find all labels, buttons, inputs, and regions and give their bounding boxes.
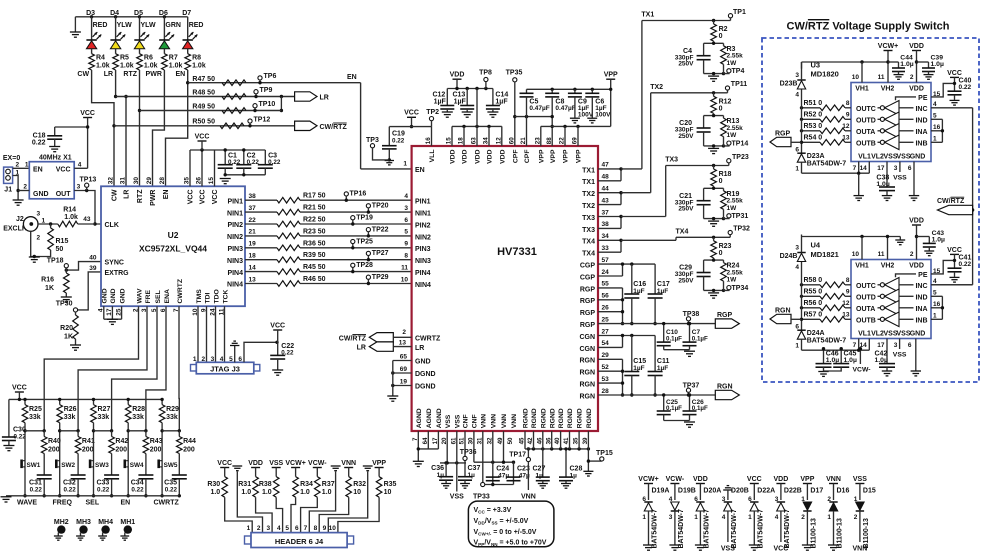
svg-text:VH1: VH1	[855, 263, 869, 270]
svg-text:R53 0: R53 0	[804, 123, 823, 130]
svg-text:1.0µ: 1.0µ	[844, 357, 857, 364]
capacitor C37 1uF / test point TP36	[458, 431, 480, 483]
svg-text:1µ: 1µ	[437, 472, 445, 479]
wire VNN pin31 to TP33	[482, 431, 484, 485]
svg-text:AGND: AGND	[436, 408, 443, 428]
wire RC loop TX1	[704, 42, 726, 76]
svg-text:BAT54DW-7: BAT54DW-7	[807, 338, 847, 345]
power VCC U2	[195, 134, 210, 151]
svg-text:JTAG J3: JTAG J3	[210, 365, 240, 374]
capacitor C6 1uF 100V	[585, 89, 611, 118]
flag RGN output	[715, 384, 739, 400]
junction U3 row0	[800, 106, 803, 109]
svg-text:200: 200	[82, 446, 94, 453]
svg-text:SW5: SW5	[164, 462, 178, 469]
svg-text:37: 37	[602, 209, 610, 216]
capacitor C1 0.22	[218, 148, 241, 175]
wire TX2 row	[650, 84, 727, 95]
svg-text:MD1821: MD1821	[811, 250, 839, 259]
svg-text:VH2: VH2	[881, 86, 895, 93]
svg-text:R54 0: R54 0	[804, 135, 823, 142]
svg-text:R47 50: R47 50	[192, 76, 215, 83]
wire U4 pin6	[915, 339, 917, 371]
svg-text:RTZ: RTZ	[137, 189, 144, 203]
flag LR output	[295, 92, 329, 102]
svg-text:R4: R4	[96, 55, 105, 62]
svg-text:TX3: TX3	[665, 157, 678, 164]
resistor R31 1.0 (VDD to J4 pin 3)	[238, 460, 272, 533]
resistor R45 50	[277, 264, 326, 274]
label HV pin 38 TX3	[582, 221, 609, 234]
svg-text:VSS: VSS	[269, 460, 283, 467]
svg-text:TX2: TX2	[650, 84, 663, 91]
svg-text:38: 38	[249, 193, 257, 200]
svg-text:RGN: RGN	[775, 308, 791, 315]
capacitor C16 1uF	[624, 264, 646, 325]
svg-text:9: 9	[846, 289, 850, 296]
resistor R13 2.55k 1W	[721, 116, 743, 146]
svg-text:VSS: VSS	[896, 330, 910, 337]
svg-text:65: 65	[400, 353, 408, 360]
wire J1.2 to X1.EN	[13, 162, 30, 169]
label HV pin 9 PIN3	[404, 241, 430, 254]
svg-text:29: 29	[146, 177, 153, 185]
capacitor C41 0.22	[948, 254, 972, 277]
svg-text:R52 0: R52 0	[804, 112, 823, 119]
svg-text:2.55k: 2.55k	[727, 198, 744, 205]
label U4 GND	[910, 330, 926, 337]
svg-text:1: 1	[247, 525, 251, 532]
wire VSS rail	[440, 431, 466, 465]
svg-text:R12: R12	[719, 98, 732, 105]
svg-text:38: 38	[602, 221, 610, 228]
test point TP8	[479, 70, 492, 89]
resistor R6 1.0k	[137, 54, 158, 70]
wire CNF-VNN rail	[474, 431, 515, 464]
svg-text:C32: C32	[63, 480, 76, 487]
label HV pin 31 VNN	[476, 414, 487, 445]
svg-text:40MHz X1: 40MHz X1	[39, 155, 72, 162]
svg-text:J1: J1	[4, 186, 12, 193]
svg-text:IND: IND	[915, 118, 927, 125]
wire LED anode rail	[75, 16, 187, 18]
svg-text:GND: GND	[415, 359, 431, 366]
svg-text:VPP: VPP	[800, 476, 814, 483]
label R25 33k	[29, 406, 42, 421]
label J4 pin 3	[266, 525, 270, 532]
svg-text:VL2: VL2	[871, 153, 884, 160]
label J4 pin 4	[277, 525, 281, 532]
label U3 VSS	[883, 153, 897, 160]
capacitor C43 1.0uF	[917, 230, 946, 251]
capacitor C5 0.47uF	[520, 89, 550, 146]
label HV pin 16 VLL	[425, 137, 436, 163]
wire CPF node	[515, 115, 552, 118]
svg-text:10: 10	[852, 74, 860, 81]
svg-text:1: 1	[642, 514, 646, 521]
label HV pin 11 PIN4	[401, 264, 431, 277]
resistor R36 50	[277, 240, 326, 250]
buffer U4 OUTA-INA	[856, 301, 928, 316]
svg-text:0: 0	[719, 178, 723, 185]
label U4 pin 10 VH1	[852, 251, 869, 270]
svg-text:TP9: TP9	[260, 87, 273, 94]
svg-text:IND: IND	[915, 295, 927, 302]
svg-text:SEL: SEL	[155, 290, 162, 303]
label U2 pin 26 VCC	[196, 177, 207, 205]
svg-text:11: 11	[401, 264, 408, 271]
svg-text:C12: C12	[432, 92, 445, 99]
svg-text:HEADER 6 J4: HEADER 6 J4	[275, 537, 324, 546]
svg-text:1W: 1W	[727, 132, 738, 139]
diode D23B	[780, 62, 806, 99]
wire HV pin 19 DGND	[391, 378, 436, 390]
wire U4 IND INA INB tie	[931, 278, 944, 320]
wire RGND pin39	[587, 431, 602, 471]
svg-text:OUTC: OUTC	[856, 283, 876, 290]
svg-text:1W: 1W	[727, 205, 738, 212]
svg-text:4: 4	[795, 264, 799, 271]
svg-text:43: 43	[602, 197, 610, 204]
svg-text:VCC: VCC	[12, 385, 27, 392]
svg-text:TDI: TDI	[204, 292, 211, 303]
svg-text:GND: GND	[33, 191, 49, 198]
ground AGND	[413, 461, 424, 466]
wire PIN3 row	[245, 247, 412, 249]
svg-text:D22B: D22B	[784, 488, 802, 495]
wire U4 INC	[931, 284, 973, 286]
resistor R41 200	[75, 431, 95, 475]
wire U3 PE to VCC	[931, 83, 955, 98]
svg-text:1µF: 1µF	[495, 99, 508, 106]
svg-text:INC: INC	[915, 106, 927, 113]
label HV pin 47 TX1	[582, 162, 609, 175]
wire J2 to R14	[38, 222, 58, 225]
svg-text:1µF: 1µF	[657, 288, 668, 295]
wire J3 pin6 to VCC	[244, 341, 279, 363]
svg-text:PWR: PWR	[146, 71, 162, 78]
label EN	[175, 71, 185, 78]
svg-text:EXTRG: EXTRG	[105, 270, 130, 277]
svg-text:2: 2	[910, 251, 914, 258]
label J4 pin 5	[285, 525, 289, 532]
wire RGND pin x525	[524, 431, 526, 449]
label HV pin 25 RGP	[580, 316, 609, 329]
svg-text:VCC: VCC	[212, 190, 219, 205]
resistor R23 50	[277, 228, 326, 238]
svg-text:VH2: VH2	[881, 263, 895, 270]
svg-text:13: 13	[842, 135, 850, 142]
svg-text:VCC: VCC	[947, 247, 962, 254]
svg-text:VDD: VDD	[909, 43, 924, 50]
label R29 33k	[166, 406, 179, 421]
svg-text:RED: RED	[189, 22, 204, 29]
svg-text:6: 6	[295, 525, 299, 532]
wire TX3 pin pair	[598, 215, 623, 229]
svg-text:CW: CW	[77, 71, 89, 78]
label U3 VL2	[871, 153, 884, 160]
resistor R42 200	[109, 431, 129, 475]
wire LR net to row2	[114, 70, 117, 98]
svg-text:3: 3	[894, 342, 898, 349]
svg-text:8: 8	[846, 277, 850, 284]
svg-text:TP12: TP12	[254, 116, 271, 123]
test point TP6	[258, 73, 277, 84]
switch SW2	[55, 460, 75, 469]
svg-text:TP29: TP29	[372, 274, 389, 281]
svg-text:6: 6	[404, 217, 408, 224]
test point TP28	[351, 262, 373, 273]
svg-text:0: 0	[719, 105, 723, 112]
svg-text:8: 8	[314, 525, 318, 532]
label U2 pin 5 SEL	[151, 290, 162, 312]
wire EN net to U2 pin28	[166, 70, 190, 186]
ground C13	[462, 112, 473, 117]
wire VCW- tap	[853, 347, 871, 373]
capacitor C29 330pF 250V	[675, 260, 711, 290]
svg-text:1µF: 1µF	[434, 99, 447, 106]
wire U3 pin3 VSS	[893, 162, 907, 182]
svg-text:EN: EN	[33, 166, 43, 173]
svg-text:VPP: VPP	[538, 149, 545, 163]
svg-text:BAT54DW-7: BAT54DW-7	[807, 161, 847, 168]
IC U2 XC9572XL_VQ44 body	[101, 186, 245, 306]
ground C14	[487, 112, 498, 117]
svg-text:30: 30	[133, 177, 140, 185]
wire U2 VCC rail	[190, 148, 215, 186]
svg-text:VDD: VDD	[909, 263, 924, 270]
svg-text:55: 55	[602, 281, 610, 288]
svg-text:VDD: VDD	[693, 476, 708, 483]
svg-text:OUT: OUT	[56, 191, 72, 198]
label U3 GND	[910, 153, 926, 160]
label U2 pin 2 WAV	[132, 288, 143, 312]
label U3 pin 17	[877, 165, 885, 172]
label J4 pin 6	[295, 525, 299, 532]
wire VDD pin x452	[451, 126, 453, 146]
svg-text:VCW-: VCW-	[853, 366, 871, 373]
svg-text:TX4: TX4	[582, 251, 595, 258]
svg-text:VDD: VDD	[909, 218, 924, 225]
ground C6	[587, 118, 597, 123]
svg-text:R28: R28	[132, 406, 145, 413]
svg-text:NIN1: NIN1	[227, 210, 243, 217]
wire VDD pin x501	[501, 126, 503, 146]
svg-text:VCC: VCC	[404, 110, 419, 117]
capacitor C34 0.22	[131, 475, 154, 497]
svg-text:C35: C35	[164, 480, 177, 487]
resistor R53 0	[802, 123, 852, 134]
mounting hole MH4	[98, 519, 113, 540]
wire VPP top rail	[527, 88, 611, 91]
svg-text:OUTB: OUTB	[856, 318, 876, 325]
power VDD	[450, 72, 465, 89]
IC HV7331 body	[412, 146, 598, 431]
svg-text:RGN: RGN	[579, 358, 595, 365]
label net CWRTZ	[154, 500, 180, 507]
resistor R25 33k	[22, 398, 28, 498]
test point TP15	[596, 450, 613, 461]
svg-text:RGP: RGP	[775, 131, 791, 138]
buffer U3 OUTB-INB	[856, 135, 928, 150]
svg-text:NIN4: NIN4	[415, 282, 431, 289]
svg-text:33k: 33k	[29, 414, 41, 421]
test point TP34	[724, 285, 749, 292]
svg-text:1µ: 1µ	[536, 472, 544, 479]
svg-text:4: 4	[933, 101, 937, 108]
svg-text:17: 17	[877, 165, 885, 172]
junction U4 row1	[800, 295, 803, 298]
svg-text:1: 1	[403, 161, 407, 168]
svg-text:RGND: RGND	[540, 408, 547, 428]
svg-text:4: 4	[775, 514, 779, 521]
ground switch rail	[1, 497, 12, 502]
svg-text:CW: CW	[112, 189, 119, 201]
label U4 pin 7	[853, 342, 857, 349]
svg-text:5: 5	[404, 229, 408, 236]
svg-text:0.22: 0.22	[165, 487, 178, 494]
svg-text:VNN: VNN	[341, 460, 356, 467]
svg-text:VPP: VPP	[563, 149, 570, 163]
wire U3 VL rail	[802, 162, 870, 175]
label LR	[104, 71, 113, 78]
svg-text:CGP: CGP	[580, 263, 596, 270]
test point TP22	[366, 226, 388, 237]
wire RGND pin x560	[560, 431, 562, 449]
svg-text:TP34: TP34	[732, 285, 749, 292]
svg-text:0.47µF: 0.47µF	[555, 105, 575, 112]
svg-text:C14: C14	[495, 92, 508, 99]
ground R20	[70, 345, 81, 350]
diode D24A BAT54DW-7	[795, 318, 846, 351]
wire bottom rail switches	[6, 495, 179, 497]
ground U4 pin6	[911, 371, 921, 376]
svg-text:R6: R6	[144, 55, 153, 62]
capacitor C39 1.0uF	[917, 55, 944, 75]
test point TP35 / CPF pin60	[506, 70, 523, 147]
svg-text:CWRTZ: CWRTZ	[154, 500, 180, 507]
resistor R19 2.55k 1W	[721, 188, 743, 218]
svg-text:1µF: 1µF	[633, 288, 644, 295]
ground LED rail	[70, 17, 81, 37]
svg-text:D20B: D20B	[731, 488, 749, 495]
svg-text:4: 4	[277, 525, 281, 532]
wire RC loop TX3	[704, 187, 726, 221]
resistor R47	[222, 80, 246, 86]
svg-text:OUTB: OUTB	[856, 141, 876, 148]
wire TP33 node	[473, 482, 514, 500]
resistor R29 33k	[159, 398, 165, 498]
svg-text:TX4: TX4	[676, 229, 689, 236]
svg-text:CLK: CLK	[105, 222, 119, 229]
wire CWRTZ row / resistor R50 50 label	[114, 119, 295, 126]
svg-text:VCC: VCC	[56, 166, 71, 173]
wire TX1 vertical	[621, 21, 642, 169]
ground C36	[441, 484, 451, 489]
svg-text:28: 28	[159, 177, 166, 185]
ground J3 pin5	[230, 341, 239, 345]
svg-text:BAT54DW-7: BAT54DW-7	[678, 509, 685, 549]
svg-text:1: 1	[42, 217, 46, 224]
wire X1.OUT to CLK	[74, 184, 101, 226]
label U4 pin 6	[908, 342, 912, 349]
svg-text:0.1µF: 0.1µF	[666, 335, 682, 342]
capacitor C31 0.22	[29, 475, 52, 497]
svg-text:1µF: 1µF	[454, 99, 467, 106]
svg-text:XC9572XL_VQ44: XC9572XL_VQ44	[139, 244, 207, 254]
svg-text:EN: EN	[175, 71, 185, 78]
capacitor C40 0.22	[948, 77, 972, 100]
power VCC U3	[947, 70, 962, 91]
wire CW net to U2 pin32	[92, 70, 116, 186]
test point TP10	[253, 101, 275, 112]
label U2 pin 13 NIN4	[227, 276, 256, 288]
label U2 pin 17 GND	[106, 288, 117, 315]
svg-text:DGND: DGND	[415, 384, 436, 391]
svg-text:17: 17	[877, 342, 885, 349]
wire U2 signal to column x111	[112, 306, 157, 431]
resistor R55 0	[802, 289, 852, 300]
svg-text:2: 2	[801, 514, 805, 521]
svg-text:1.0µ: 1.0µ	[932, 237, 945, 244]
resistor R22 50	[277, 217, 326, 227]
svg-text:56: 56	[602, 293, 610, 300]
svg-text:R30: R30	[207, 481, 220, 488]
flag CW/RTZ input U3/U4	[937, 197, 973, 215]
label U2 pin 29 PWR	[146, 177, 157, 206]
svg-text:7: 7	[304, 525, 308, 532]
flag RGP output	[715, 312, 739, 328]
svg-text:32: 32	[108, 177, 115, 185]
wire U3 OUT tie vertical	[801, 90, 803, 143]
label R28 33k	[132, 406, 145, 421]
svg-text:1W: 1W	[727, 60, 738, 67]
svg-text:TP27: TP27	[372, 250, 389, 257]
svg-text:D23A: D23A	[807, 153, 825, 160]
wire U3 IND INA INB tie	[931, 101, 944, 143]
svg-text:1: 1	[748, 514, 752, 521]
ground C46	[818, 372, 828, 377]
capacitor C3 0.22	[258, 150, 281, 175]
svg-text:R26: R26	[64, 406, 77, 413]
svg-text:R36 50: R36 50	[303, 240, 326, 247]
svg-text:VL1: VL1	[858, 330, 871, 337]
svg-text:YLW: YLW	[117, 22, 133, 29]
label U2 pin 4 GND	[98, 288, 109, 312]
svg-text:200: 200	[150, 446, 162, 453]
svg-text:0.47µF: 0.47µF	[529, 105, 549, 112]
ground C1 rail	[220, 173, 231, 184]
wire node 4	[128, 429, 147, 432]
svg-text:VL1: VL1	[858, 153, 871, 160]
ground R16	[61, 297, 72, 302]
svg-text:2: 2	[402, 329, 406, 336]
svg-text:TMS: TMS	[196, 289, 203, 304]
svg-text:R8: R8	[192, 55, 201, 62]
buffer U3 OUTA-INA	[856, 124, 928, 139]
svg-text:R55 0: R55 0	[804, 289, 823, 296]
resistor R39 50	[277, 252, 326, 262]
labels U2 left pins	[105, 222, 130, 277]
power VCC to X1	[80, 110, 95, 168]
wire VCC rail switches	[9, 398, 162, 401]
power VCC U4	[947, 247, 962, 268]
svg-text:2: 2	[201, 356, 205, 363]
svg-text:R31: R31	[238, 481, 251, 488]
wire node 3	[94, 429, 114, 432]
ground to J4 pin 7	[309, 466, 340, 533]
capacitor C30 0.22	[2, 399, 26, 445]
